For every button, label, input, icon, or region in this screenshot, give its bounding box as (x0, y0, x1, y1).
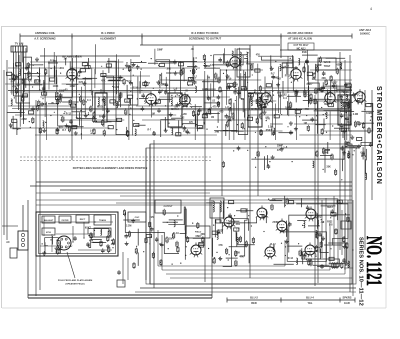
svg-text:R-12: R-12 (285, 75, 291, 78)
svg-text:MOD-3: MOD-3 (251, 108, 259, 111)
svg-text:FIELD: FIELD (195, 232, 202, 234)
svg-text:.001: .001 (59, 67, 64, 70)
svg-text:NO. 1121: NO. 1121 (362, 236, 387, 286)
svg-text:R-12: R-12 (270, 243, 276, 246)
svg-text:33K: 33K (322, 77, 327, 80)
svg-text:BLU-2: BLU-2 (250, 296, 258, 300)
svg-text:C-4: C-4 (283, 97, 288, 100)
svg-text:10MF: 10MF (255, 92, 262, 95)
svg-text:2.2M: 2.2M (268, 126, 273, 129)
svg-text:470: 470 (219, 111, 224, 114)
svg-text:2.2M: 2.2M (181, 113, 186, 116)
svg-text:RECT: RECT (80, 219, 86, 221)
svg-text:10MF: 10MF (69, 85, 76, 88)
svg-text:IF-2 456KC TO 600KC: IF-2 456KC TO 600KC (191, 31, 218, 35)
svg-text:2.2M: 2.2M (353, 113, 358, 116)
svg-text:AC: AC (6, 241, 10, 244)
svg-text:1600KC: 1600KC (360, 32, 370, 36)
svg-text:FILTER: FILTER (62, 220, 69, 222)
svg-text:SCREENING TO OUTPUT: SCREENING TO OUTPUT (189, 37, 222, 41)
svg-text:47K: 47K (12, 86, 17, 89)
svg-text:IF-1 456KC: IF-1 456KC (101, 31, 115, 35)
svg-text:10MF: 10MF (366, 112, 373, 115)
svg-text:POLE PIECE AND PLATE ASSEM: POLE PIECE AND PLATE ASSEM (58, 279, 92, 282)
svg-text:SERIES NOS. 10—11—12: SERIES NOS. 10—11—12 (358, 237, 364, 306)
svg-text:2.2M: 2.2M (126, 224, 131, 227)
svg-text:47K: 47K (101, 79, 106, 82)
svg-text:47K: 47K (218, 244, 223, 247)
svg-text:33K: 33K (236, 252, 241, 255)
svg-text:33K: 33K (326, 165, 331, 168)
svg-text:470: 470 (267, 92, 272, 95)
svg-text:C-4: C-4 (239, 79, 244, 82)
svg-text:WAVE: WAVE (324, 61, 331, 64)
svg-text:33K: 33K (344, 91, 349, 94)
svg-text:6SK7: 6SK7 (196, 235, 203, 238)
svg-text:470: 470 (186, 132, 191, 135)
svg-text:DOTTED LINES SHOW ALIGNMENT LE: DOTTED LINES SHOW ALIGNMENT LEAD DRESS P… (73, 166, 148, 170)
svg-text:33K: 33K (325, 93, 330, 96)
svg-text:6SK7: 6SK7 (307, 83, 314, 86)
svg-text:6SK7: 6SK7 (266, 129, 273, 132)
svg-text:10MF: 10MF (277, 145, 284, 148)
svg-text:RED: RED (251, 301, 257, 305)
svg-text:1M: 1M (63, 58, 66, 60)
svg-text:CUT TO 204.7: CUT TO 204.7 (294, 44, 310, 47)
svg-text:1M: 1M (207, 77, 210, 80)
svg-text:A.F. SCREENING: A.F. SCREENING (34, 37, 56, 41)
svg-text:BLU-4: BLU-4 (306, 296, 314, 300)
svg-text:6Y5G: 6Y5G (46, 232, 52, 234)
svg-text:33K: 33K (305, 108, 310, 111)
svg-text:OUTPUT: OUTPUT (164, 206, 174, 208)
svg-text:C-19: C-19 (226, 79, 232, 81)
svg-text:R-12: R-12 (327, 221, 333, 224)
svg-text:OSC: OSC (135, 217, 140, 219)
svg-text:TRANS: TRANS (99, 219, 107, 222)
svg-text:1M: 1M (151, 113, 154, 116)
svg-text:470: 470 (213, 106, 218, 109)
svg-text:250M: 250M (300, 254, 306, 257)
svg-text:RF AMPLIFIER: RF AMPLIFIER (62, 55, 81, 59)
svg-text:C-4: C-4 (347, 121, 352, 124)
svg-text:10MF: 10MF (316, 64, 323, 67)
svg-text:YEL: YEL (307, 301, 312, 305)
svg-text:TRAP: TRAP (324, 65, 331, 68)
svg-text:R-7: R-7 (62, 129, 67, 132)
svg-text:R-7: R-7 (128, 69, 133, 72)
svg-text:470: 470 (28, 79, 33, 82)
svg-text:33K: 33K (53, 60, 58, 63)
svg-text:100K: 100K (205, 65, 211, 68)
svg-text:10MF: 10MF (59, 90, 66, 93)
svg-text:SPKRS: SPKRS (343, 296, 352, 300)
svg-text:1M: 1M (169, 237, 172, 240)
svg-text:250M: 250M (345, 82, 351, 85)
svg-text:1M: 1M (304, 122, 307, 125)
svg-text:.001: .001 (192, 71, 197, 74)
svg-text:.001: .001 (166, 68, 171, 71)
svg-text:R-12: R-12 (288, 257, 294, 260)
svg-text:1M: 1M (211, 117, 214, 119)
svg-text:6SQ7: 6SQ7 (332, 83, 339, 85)
svg-text:EAR: EAR (344, 301, 350, 305)
svg-text:ALIGNMENT: ALIGNMENT (100, 37, 116, 41)
svg-text:2.2M: 2.2M (197, 127, 202, 130)
svg-text:R-12: R-12 (66, 113, 72, 116)
svg-text:2.2M: 2.2M (286, 108, 291, 111)
svg-text:.001: .001 (265, 117, 270, 120)
svg-text:AT 1600 KC ALIGN: AT 1600 KC ALIGN (288, 37, 312, 41)
svg-text:.001: .001 (235, 223, 240, 226)
svg-text:BALLAST: BALLAST (44, 219, 54, 222)
svg-text:4: 4 (370, 7, 372, 11)
svg-text:STROMBERG•CARLSON: STROMBERG•CARLSON (375, 86, 382, 185)
svg-text:33K: 33K (312, 79, 317, 81)
svg-text:(SPEAKER FIELD): (SPEAKER FIELD) (66, 283, 85, 286)
svg-text:2.2M: 2.2M (21, 118, 26, 121)
svg-text:33K: 33K (43, 103, 48, 106)
svg-text:C-19: C-19 (159, 84, 165, 87)
svg-text:6SK7: 6SK7 (241, 88, 248, 91)
svg-text:ANTENNA COIL: ANTENNA COIL (35, 31, 56, 35)
svg-text:470: 470 (277, 149, 282, 152)
svg-text:6SK7: 6SK7 (354, 93, 361, 96)
svg-text:6V6: 6V6 (149, 216, 154, 219)
svg-text:6SK7: 6SK7 (302, 52, 308, 54)
svg-text:10MF: 10MF (157, 50, 163, 52)
svg-text:ADJ RF-OSC 600KC: ADJ RF-OSC 600KC (287, 31, 313, 35)
svg-text:100K: 100K (53, 85, 59, 88)
